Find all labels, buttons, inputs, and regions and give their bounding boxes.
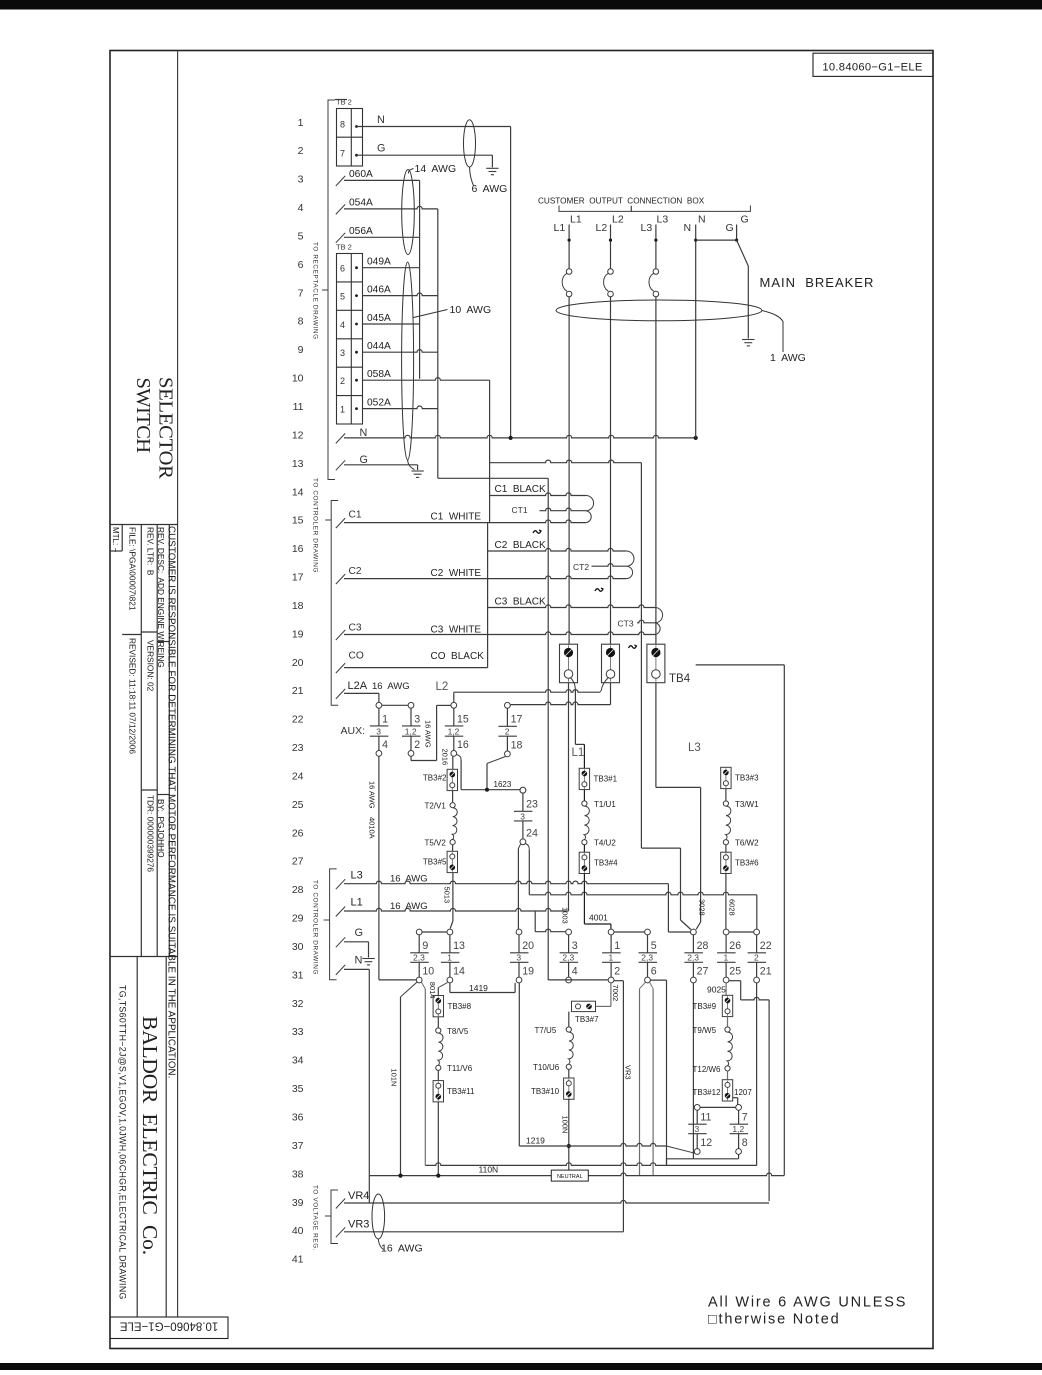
wire wire M down — [756, 983, 758, 1166]
wire wire 7002 — [610, 983, 612, 1006]
wire 10-right diag — [422, 982, 426, 989]
wire wire N row31 down — [368, 969, 370, 1175]
wire wire C to TB3#2 — [452, 756, 454, 769]
svg-text:MAIN BREAKER: MAIN BREAKER — [760, 275, 875, 290]
leader 10AWG — [414, 310, 448, 318]
svg-text:T8/V5: T8/V5 — [447, 1027, 469, 1036]
wire wire — [727, 1017, 729, 1027]
svg-text:1: 1 — [382, 713, 388, 725]
wire — [416, 476, 419, 478]
wire — [121, 525, 123, 552]
wire — [518, 962, 520, 977]
terminal — [736, 1149, 742, 1155]
lug TB3#10 — [564, 1078, 574, 1099]
wire wire 060A — [344, 179, 420, 181]
wire — [717, 961, 736, 963]
svg-text:L3: L3 — [688, 742, 701, 754]
terminal — [723, 929, 729, 935]
wire — [522, 793, 524, 811]
terminal — [608, 977, 614, 983]
wire wire 054A — [344, 206, 438, 209]
terminal — [520, 787, 526, 793]
junction — [694, 239, 697, 242]
wire — [489, 171, 497, 173]
svg-text:101N: 101N — [389, 1069, 398, 1087]
wire wire 1165 line — [425, 1163, 756, 1166]
wire wire C3 BLACK — [488, 605, 655, 608]
wire wire 1219 — [519, 1143, 666, 1146]
svg-text:L2A: L2A — [348, 680, 368, 692]
wire wire B loop4 — [437, 704, 451, 706]
wire — [156, 525, 158, 957]
wire — [136, 957, 138, 1318]
wire — [696, 1110, 698, 1124]
wire wire L1 jog — [575, 743, 584, 745]
svg-text:REV. DESC: ADD ENGINE WIREING: REV. DESC: ADD ENGINE WIREING — [156, 527, 166, 668]
svg-text:16: 16 — [457, 739, 469, 751]
svg-text:22: 22 — [292, 714, 304, 726]
wire wire 1623 — [461, 789, 520, 791]
wire wire 19 down — [518, 983, 520, 1146]
svg-text:T5/V2: T5/V2 — [425, 839, 447, 848]
svg-text:TB3#2: TB3#2 — [423, 774, 447, 783]
svg-text:1: 1 — [447, 953, 452, 963]
wire wire G stub — [417, 465, 419, 470]
lug tail L1 — [571, 678, 576, 691]
breaker arc L2 — [604, 273, 609, 291]
CT1 loop arc2 — [586, 511, 591, 523]
svg-text:3028: 3028 — [697, 899, 706, 916]
terminal T5/V2 — [450, 840, 455, 845]
svg-text:SELECTOR: SELECTOR — [154, 377, 176, 479]
terminal — [447, 977, 453, 983]
wire F diag — [439, 983, 448, 988]
wire — [506, 736, 508, 751]
wire — [560, 961, 579, 963]
wire — [568, 297, 570, 644]
terminal — [694, 1149, 700, 1155]
wire wire 058A path — [490, 460, 642, 463]
wire wire 1623 down — [460, 760, 462, 790]
wire wire A-B tie — [382, 704, 408, 706]
terminal — [754, 929, 760, 935]
wire break — [336, 460, 345, 470]
NEUTRAL box — [551, 1170, 588, 1181]
svg-text:14: 14 — [292, 486, 304, 498]
wire — [110, 956, 178, 958]
wire — [337, 309, 363, 311]
terminal — [653, 269, 659, 275]
wire wire C2 WHITE — [344, 576, 626, 579]
svg-text:C2: C2 — [349, 566, 362, 577]
svg-text:7: 7 — [340, 149, 345, 159]
lug TB4-1 — [560, 644, 578, 683]
svg-text:T10/U6: T10/U6 — [533, 1063, 560, 1072]
svg-text:6028: 6028 — [727, 899, 736, 916]
wire wire I-J tie — [614, 931, 645, 933]
svg-text:CT3: CT3 — [618, 619, 634, 629]
wire wire L2A down — [378, 693, 380, 702]
wire wire 045A — [363, 323, 420, 325]
wire D diag — [487, 757, 506, 764]
svg-text:T4/U2: T4/U2 — [594, 839, 616, 848]
lug TB4-2 — [602, 644, 620, 683]
lug TB3#5 — [447, 851, 457, 872]
svg-text:CT1: CT1 — [512, 505, 528, 515]
wire — [744, 342, 752, 344]
wire — [639, 961, 658, 963]
wire wire — [727, 1071, 729, 1080]
svg-text:16 AWG: 16 AWG — [424, 720, 433, 748]
wire wire 8 down — [738, 1154, 740, 1158]
wire — [449, 935, 451, 953]
terminal — [451, 702, 457, 708]
svg-text:8: 8 — [340, 120, 345, 130]
svg-text:7: 7 — [742, 1112, 748, 1124]
terminal — [725, 1009, 730, 1014]
wire wire kink to K — [681, 920, 691, 930]
svg-text:REVISED: 11:18:11 07/12/2006: REVISED: 11:18:11 07/12/2006 — [128, 638, 138, 754]
svg-text:30: 30 — [292, 941, 304, 953]
wire wire 4001 to I — [610, 924, 612, 929]
svg-text:TB 2: TB 2 — [336, 98, 352, 107]
wire 101N diag — [401, 982, 417, 997]
svg-text:2,3: 2,3 — [562, 953, 574, 963]
terminal — [516, 977, 522, 983]
svg-text:C1 WHITE: C1 WHITE — [431, 512, 482, 523]
svg-text:22: 22 — [760, 940, 772, 952]
wire break — [336, 689, 345, 699]
wire break — [336, 433, 345, 443]
svg-text:3: 3 — [520, 811, 525, 821]
wire — [410, 952, 429, 954]
wire wire L1 feed — [574, 690, 576, 744]
wire wire 110N drop — [437, 1102, 439, 1176]
wire — [738, 1134, 740, 1149]
lug TB3#8 — [433, 996, 443, 1017]
wire wire VR3 — [344, 1231, 623, 1233]
wire J split L — [640, 982, 646, 988]
wire — [655, 645, 657, 682]
svg-text:2: 2 — [298, 145, 304, 157]
wire — [141, 789, 157, 791]
wire wire L1 column lower — [568, 683, 570, 911]
wire — [140, 525, 142, 957]
svg-text:18: 18 — [292, 600, 304, 612]
svg-text:2: 2 — [614, 966, 620, 978]
wire wire 1419b — [450, 992, 515, 994]
wire — [418, 962, 420, 977]
svg-text:41: 41 — [292, 1254, 304, 1266]
wire wire 894 line — [529, 892, 757, 895]
wire wire H feed jog — [534, 911, 536, 932]
wire wire kink 5013 — [450, 921, 453, 929]
wire wire G stub row30 — [368, 942, 370, 958]
svg-text:G: G — [726, 222, 734, 234]
wire — [639, 952, 658, 954]
svg-text:2016: 2016 — [441, 749, 450, 766]
wire — [748, 952, 767, 954]
svg-text:7002: 7002 — [611, 985, 620, 1002]
svg-text:BALDOR ELECTRIC Co.: BALDOR ELECTRIC Co. — [138, 1016, 162, 1255]
svg-text:TB3#11: TB3#11 — [447, 1087, 475, 1096]
wire wire — [568, 1069, 570, 1078]
terminal — [723, 977, 729, 983]
wire wire C-black bus — [640, 463, 642, 848]
svg-text:054A: 054A — [349, 198, 373, 209]
wire wire C1 WHITE — [344, 520, 586, 523]
svg-text:AUX:: AUX: — [341, 725, 366, 737]
wire wire — [583, 845, 585, 852]
wire wire L jog down — [740, 981, 742, 1000]
wire — [692, 935, 694, 953]
svg-text:C2 BLACK: C2 BLACK — [495, 540, 546, 551]
wire wire L-M tie — [729, 931, 754, 933]
wire wire L3 16AWG row28 — [344, 881, 668, 884]
wire wire — [452, 791, 454, 803]
wire — [692, 962, 694, 977]
svg-text:21: 21 — [760, 966, 772, 978]
wire wire 4001 jog — [584, 923, 611, 925]
breaker arc L1 — [562, 273, 567, 291]
wire — [331, 501, 338, 706]
wire — [756, 935, 758, 953]
junction — [398, 1174, 402, 1178]
wire — [725, 935, 727, 953]
svg-text:1: 1 — [608, 953, 613, 963]
terminal — [408, 751, 414, 757]
title box 10.84060-G1-ELE — [813, 53, 933, 76]
bottom title box — [110, 1317, 228, 1339]
wire — [727, 1081, 729, 1101]
wire wire 8014 — [437, 988, 439, 996]
svg-text:046A: 046A — [367, 284, 391, 295]
junction — [485, 788, 489, 792]
wire — [610, 225, 612, 269]
junction — [694, 436, 698, 440]
lug TB3#12 — [722, 1080, 732, 1101]
CT2 loop arc — [626, 551, 634, 566]
terminal — [505, 702, 511, 708]
svg-text:TO CONTROLER DRAWING: TO CONTROLER DRAWING — [312, 478, 319, 573]
wire — [717, 952, 736, 954]
wire — [402, 735, 421, 737]
svg-text:1: 1 — [340, 405, 345, 415]
svg-text:1,2: 1,2 — [405, 727, 417, 737]
svg-text:4: 4 — [572, 966, 578, 978]
CT1 loop arc — [586, 496, 594, 511]
terminal T12/W6 — [725, 1066, 730, 1071]
CT2 loop arc2 — [626, 566, 632, 578]
svg-text:TB3#5: TB3#5 — [423, 858, 447, 867]
terminal — [645, 977, 651, 983]
wire break — [336, 518, 345, 528]
wire wire N column — [695, 225, 697, 438]
wire — [568, 962, 570, 977]
svg-text:VR4: VR4 — [348, 1190, 369, 1202]
terminal — [408, 702, 414, 708]
wire wire L1 to TB3#1 — [583, 744, 585, 768]
wire wire — [568, 1012, 570, 1027]
svg-text:L2: L2 — [436, 681, 449, 693]
lug TB3#7 — [572, 1001, 596, 1011]
lug tail L2 — [600, 678, 608, 693]
svg-text:9: 9 — [298, 344, 304, 356]
svg-text:058A: 058A — [367, 369, 391, 380]
wire — [410, 736, 412, 750]
svg-text:L3: L3 — [351, 870, 363, 882]
wire wire 1419a — [449, 983, 451, 993]
svg-text:2,3: 2,3 — [687, 953, 699, 963]
svg-text:17: 17 — [292, 572, 304, 584]
svg-text:TB3#3: TB3#3 — [735, 774, 759, 783]
wire wire 056A — [344, 236, 420, 238]
lug TB3#3 — [721, 767, 731, 788]
flux mark — [533, 530, 541, 533]
wire wire 1419c — [514, 983, 516, 993]
svg-text:12: 12 — [700, 1137, 712, 1149]
wire break — [336, 630, 345, 640]
svg-text:CT2: CT2 — [573, 562, 589, 572]
wire — [325, 519, 331, 521]
svg-text:C1 BLACK: C1 BLACK — [495, 484, 546, 495]
wire wire G feed — [517, 849, 519, 930]
terminal — [516, 929, 522, 935]
wire wire CO BLACK — [344, 667, 488, 669]
svg-text:16 AWG: 16 AWG — [372, 681, 410, 692]
wire — [325, 1215, 331, 1217]
svg-text:L3: L3 — [641, 222, 653, 234]
terminal — [754, 977, 760, 983]
wire break — [336, 907, 345, 917]
terminal block TB2 lower — [337, 254, 363, 425]
wire — [331, 1190, 338, 1244]
wire wire J right — [650, 979, 666, 981]
svg-text:G: G — [355, 927, 364, 939]
wire wire VR4 riser — [768, 1000, 770, 1201]
wire wire — [725, 789, 727, 801]
wire — [610, 935, 612, 953]
bottom black bar — [0, 1363, 1042, 1370]
wire wire J down — [666, 980, 668, 1165]
terminal T1/U1 — [582, 801, 587, 806]
svg-text:14 AWG: 14 AWG — [415, 163, 457, 175]
terminal — [566, 1081, 571, 1086]
wire wire N row1 — [357, 126, 511, 128]
svg-text:TB 2: TB 2 — [336, 243, 352, 252]
svg-text:3: 3 — [298, 174, 304, 186]
lug TB3#2 — [447, 769, 457, 790]
terminal — [520, 839, 526, 845]
svg-text:1: 1 — [298, 117, 304, 129]
svg-text:28: 28 — [292, 884, 304, 896]
wire — [738, 1110, 740, 1124]
flux mark — [595, 588, 603, 591]
svg-text:REV. LTR: B: REV. LTR: B — [146, 527, 156, 576]
wire wire jog — [641, 847, 680, 849]
svg-text:1003: 1003 — [560, 907, 569, 924]
border frame — [110, 51, 933, 1349]
coil T8-T11 — [438, 1033, 443, 1065]
svg-text:L1: L1 — [351, 897, 363, 909]
wire — [418, 935, 420, 953]
wire wire G stub — [736, 225, 738, 241]
wire wire B loop2 — [411, 760, 437, 762]
wire wire L jog — [729, 980, 741, 982]
wire — [410, 961, 429, 963]
wire wire G row2 — [357, 154, 493, 156]
terminal — [723, 855, 728, 860]
svg-text:24: 24 — [526, 828, 538, 840]
svg-text:056A: 056A — [349, 226, 373, 237]
svg-text:L2: L2 — [612, 214, 624, 226]
svg-text:4: 4 — [340, 320, 345, 330]
svg-text:VR3: VR3 — [348, 1219, 369, 1231]
svg-text:1419: 1419 — [469, 983, 488, 993]
wire wire 3028 — [700, 787, 702, 922]
wire — [122, 634, 141, 636]
wire wire 11-7 tie — [700, 1106, 736, 1108]
terminal — [505, 751, 511, 757]
wire — [725, 768, 727, 788]
wire — [337, 366, 363, 368]
svg-text:1: 1 — [614, 940, 620, 952]
wire break — [336, 204, 345, 214]
wire — [756, 962, 758, 977]
wire — [568, 645, 570, 682]
wire — [445, 725, 464, 727]
wire — [647, 962, 649, 977]
svg-text:39: 39 — [292, 1197, 304, 1209]
svg-text:TB3#12: TB3#12 — [693, 1088, 722, 1097]
wire wire 058A — [363, 378, 490, 381]
wire wire 052A — [363, 406, 438, 409]
wire wire jog down — [680, 848, 682, 920]
svg-text:TB3#6: TB3#6 — [735, 859, 759, 868]
wire wire contactD-L2 — [507, 702, 610, 705]
wire — [688, 1133, 707, 1135]
wire wire 049A — [363, 267, 420, 269]
wire G-feed diag — [518, 844, 520, 848]
wire wire 10-right down — [424, 989, 426, 1162]
flux mark — [629, 645, 637, 648]
wire — [655, 297, 657, 644]
wire wire D down — [486, 764, 488, 790]
svg-text:37: 37 — [292, 1140, 304, 1152]
wire — [337, 338, 363, 340]
svg-text:C3 BLACK: C3 BLACK — [495, 597, 546, 608]
svg-text:100N: 100N — [561, 1116, 570, 1134]
junction — [509, 436, 513, 440]
wire — [486, 167, 498, 169]
terminal — [652, 670, 661, 679]
svg-text:N: N — [355, 955, 363, 967]
svg-text:17: 17 — [511, 714, 523, 726]
svg-text:2,3: 2,3 — [641, 953, 653, 963]
terminal — [608, 929, 614, 935]
wire — [328, 100, 335, 480]
leader 14AWG — [408, 169, 413, 174]
svg-text:5: 5 — [340, 292, 345, 302]
wire wire 110N — [369, 1173, 784, 1176]
wire — [583, 853, 585, 873]
svg-text:TB3#10: TB3#10 — [531, 1087, 560, 1096]
wire wire 046A — [363, 293, 438, 296]
svg-text:16 AWG: 16 AWG — [390, 901, 428, 912]
svg-text:SWITCH: SWITCH — [132, 378, 154, 454]
wire — [506, 708, 508, 726]
top black bar — [0, 0, 1042, 10]
